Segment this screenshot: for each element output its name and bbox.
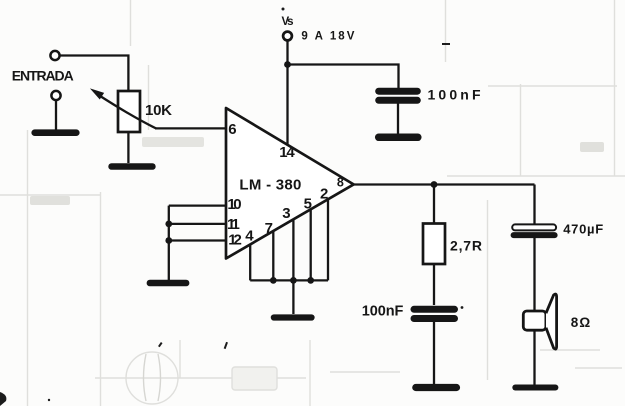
svg-text:12: 12	[228, 232, 242, 249]
capacitor C3 470uF plus plate (hollow)	[512, 224, 556, 230]
junction output/R1	[431, 181, 438, 188]
wire junction to C1	[288, 65, 399, 89]
wire J1 to potentiometer top	[60, 56, 129, 92]
wire Vs to pin 14	[286, 41, 288, 145]
wire bus to ground	[292, 280, 294, 314]
wire pin 4 to bus	[249, 245, 251, 281]
svg-text:2,7R: 2,7R	[450, 237, 482, 253]
wire left bus vertical	[168, 206, 170, 280]
ground (C2)	[416, 384, 457, 391]
wire C2 to ground	[433, 322, 435, 384]
wire pin 10 to left bus	[169, 204, 226, 206]
wire pin 12 to left bus	[169, 239, 226, 241]
junction pin 7 bus	[270, 277, 277, 284]
svg-text:4: 4	[245, 227, 254, 244]
junction pin 3 bus	[290, 277, 297, 284]
ground (pot)	[112, 163, 153, 170]
capacitor C3 470uF minus plate	[514, 232, 555, 238]
ground (left bus)	[150, 280, 186, 287]
ground (bottom pins)	[274, 314, 312, 320]
wire pin 2 to bus	[327, 199, 329, 280]
svg-text:100nF: 100nF	[428, 86, 481, 102]
capacitor C2 100nF plates	[414, 309, 455, 318]
svg-text:LM - 380: LM - 380	[239, 176, 301, 193]
wire R1 to C2	[433, 264, 435, 305]
svg-text:100nF: 100nF	[362, 303, 404, 319]
ground (speaker)	[515, 385, 555, 391]
terminal J1 (input hot)	[50, 51, 59, 60]
capacitor C1 100nF plates	[379, 91, 418, 100]
wire pin 3 to bus	[292, 219, 294, 280]
wire ground bus (bottom pins)	[250, 279, 328, 281]
terminal Vs	[283, 32, 292, 41]
junction pin 12 left bus	[165, 237, 172, 244]
potentiometer P1 body	[118, 91, 140, 132]
terminal J2 (input ground)	[51, 91, 60, 100]
svg-text:8: 8	[337, 175, 344, 189]
junction pin 5 bus	[307, 277, 314, 284]
svg-text:10K: 10K	[145, 102, 172, 119]
svg-text:14: 14	[279, 144, 295, 161]
svg-text:Vs: Vs	[282, 16, 294, 28]
wire pot bottom to ground	[127, 133, 129, 164]
svg-text:470µF: 470µF	[563, 222, 603, 237]
wire C3 to speaker	[533, 238, 535, 311]
svg-text:3: 3	[282, 205, 290, 222]
wire C1 to ground	[397, 104, 399, 134]
speaker LS1 driver	[523, 311, 546, 330]
wire pin 11 to left bus	[169, 223, 226, 225]
ground (C1)	[379, 134, 418, 142]
svg-text:11: 11	[227, 216, 240, 233]
potentiometer P1 wiper arrow	[92, 90, 156, 129]
wire pin 8 output	[354, 183, 535, 185]
ground (input)	[35, 129, 77, 136]
svg-text:6: 6	[228, 121, 236, 138]
junction Vs/C1	[284, 61, 291, 68]
wire J2 to ground	[55, 100, 57, 130]
wire pin 5 to bus	[310, 209, 312, 280]
svg-text:8Ω: 8Ω	[571, 315, 591, 330]
wire speaker to ground	[533, 330, 535, 385]
speaker LS1 cone	[546, 294, 557, 349]
wire pin 6 input	[155, 127, 226, 129]
op-amp U1 LM-380	[226, 108, 354, 259]
specks (decorative)	[0, 8, 463, 406]
junction pin 11 left bus	[165, 221, 172, 228]
wire pin 7 to bus	[272, 231, 274, 280]
resistor R1 2,7R	[423, 224, 445, 265]
wire output to C3	[533, 185, 535, 225]
svg-text:10: 10	[227, 196, 241, 213]
svg-text:9 A 18V: 9 A 18V	[301, 31, 354, 43]
wire junction to R1	[433, 185, 435, 224]
svg-text:ENTRADA: ENTRADA	[12, 67, 74, 83]
svg-text:7: 7	[265, 220, 273, 237]
